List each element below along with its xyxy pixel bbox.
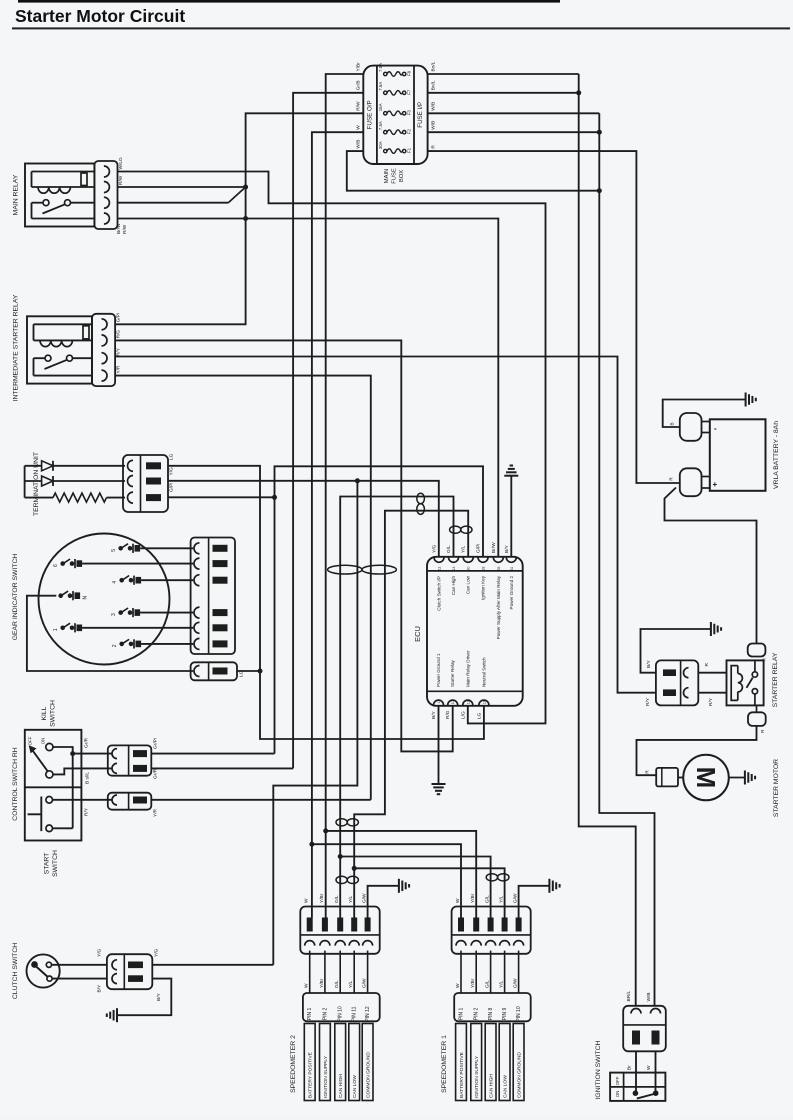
main fuse box outline (363, 66, 427, 164)
wire starter relay to starter motor (637, 726, 757, 775)
svg-text:W: W (455, 983, 461, 988)
svg-text:Y/G: Y/G (432, 544, 438, 553)
svg-text:B/Y: B/Y (504, 544, 510, 553)
ECU top pin 33 Ignition Key (478, 557, 488, 562)
svg-text:CAN LOW: CAN LOW (503, 1075, 509, 1098)
svg-text:R: R (431, 145, 437, 149)
svg-text:CAN HIGH: CAN HIGH (489, 1074, 495, 1098)
svg-text:MAIN RELAY: MAIN RELAY (13, 174, 20, 215)
svg-text:ECU: ECU (413, 626, 422, 642)
wire clutch B/Y to ground (117, 979, 171, 1016)
svg-text:OFF: OFF (28, 736, 33, 745)
svg-text:F8: F8 (406, 70, 411, 76)
svg-text:G/L: G/L (446, 545, 452, 553)
wire W branch to speedometer 1 (309, 842, 314, 847)
svg-text:N: N (83, 596, 89, 600)
svg-text:31: 31 (510, 567, 514, 571)
svg-text:PIN 11: PIN 11 (352, 1006, 358, 1021)
svg-text:TERMINATION UNIT: TERMINATION UNIT (33, 452, 40, 516)
wire LG from neutral connector (237, 670, 260, 672)
ground clutch (116, 1008, 118, 1022)
svg-text:10: 10 (451, 701, 455, 705)
svg-text:15A: 15A (378, 103, 383, 111)
gear switch contact 3 (118, 610, 123, 615)
svg-text:FUSE I/P: FUSE I/P (417, 102, 424, 128)
svg-text:FUSE O/P: FUSE O/P (367, 100, 374, 129)
svg-text:G/L: G/L (334, 980, 340, 988)
wire W fuse to speedometers (312, 132, 363, 918)
ECU bottom pin 10 Starter Relay (448, 700, 458, 705)
svg-text:Y/L: Y/L (461, 545, 467, 553)
wire CAN low Y/L ECU to speedometers (354, 511, 468, 918)
svg-text:1: 1 (53, 628, 59, 631)
fuse F1 30A (384, 149, 387, 152)
svg-text:W: W (646, 1065, 652, 1070)
svg-text:F2: F2 (406, 129, 411, 135)
gear switch neutral 1-pin connector (191, 662, 237, 680)
SPEEDOMETER 1 signal IGNITION SUPPLY (471, 1024, 482, 1101)
svg-text:STARTER RELAY: STARTER RELAY (772, 652, 779, 707)
starter relay connector (656, 660, 698, 705)
wire kill ON contact (53, 747, 73, 754)
wire W/B fuse output loop (347, 151, 600, 191)
SPEEDOMETER 2 signal CAN HIGH (335, 1024, 346, 1101)
wire intermediate relay pin4 Y/R to start switch (115, 376, 371, 800)
SPEEDOMETER 1 connector (452, 907, 531, 954)
wire LG termination to gear and ECU neutral switch (168, 466, 484, 739)
svg-text:F7: F7 (406, 89, 411, 95)
svg-text:Y/G: Y/G (154, 948, 160, 957)
wire Y/G termination to ECU clutch input (168, 481, 439, 557)
intermediate starter relay switch (45, 355, 51, 361)
svg-text:W/LG: W/LG (118, 157, 124, 170)
ground starter motor (744, 771, 746, 785)
svg-text:Y/G: Y/G (97, 948, 103, 957)
svg-text:F1: F1 (406, 147, 411, 153)
main relay switch (43, 200, 49, 206)
svg-text:ON: ON (615, 1091, 620, 1098)
svg-text:Main Relay Driver: Main Relay Driver (465, 650, 470, 687)
wire gear 1 to connector (82, 627, 193, 629)
svg-text:B sl/L: B sl/L (85, 772, 91, 784)
twisted pair symbol on CAN horizontals (417, 493, 425, 504)
svg-text:7.5A: 7.5A (378, 121, 383, 130)
wire battery negative to ground (663, 400, 746, 428)
wire intermediate relay pin2 R/G to ECU starter relay (115, 340, 453, 751)
svg-text:B: B (670, 422, 675, 425)
svg-text:COMMON GROUND: COMMON GROUND (366, 1052, 372, 1098)
diode D1 (25, 465, 42, 467)
ECU top pin 12 Clutch Switch I/P (434, 557, 444, 562)
svg-text:Y/L: Y/L (348, 980, 354, 988)
main relay coil resistor (81, 173, 87, 186)
wires starter relay connector to coil (698, 672, 726, 674)
svg-text:Starter Motor Circuit: Starter Motor Circuit (15, 6, 185, 26)
svg-text:Bn/L: Bn/L (431, 80, 437, 90)
svg-text:PIN 1: PIN 1 (459, 1008, 465, 1021)
svg-text:30A: 30A (378, 141, 383, 149)
SPEEDOMETER 1 pin block (454, 993, 531, 1021)
wire clutch Y/G to riser (152, 964, 273, 966)
svg-text:Neutral Switch: Neutral Switch (481, 657, 486, 687)
svg-text:GEAR INDICATOR SWITCH: GEAR INDICATOR SWITCH (12, 554, 19, 641)
wire gear 3 to connector (140, 612, 193, 614)
gear switch contact 5 (118, 546, 123, 551)
gear switch contact 1 (60, 626, 65, 631)
svg-text:-: - (714, 424, 717, 433)
intermediate starter relay coil (34, 323, 93, 325)
svg-text:PIN 2: PIN 2 (322, 1008, 328, 1021)
svg-text:PIN 10: PIN 10 (338, 1006, 344, 1022)
kill switch lever arrow (32, 749, 48, 771)
svg-text:R/G: R/G (445, 710, 451, 719)
wire Y/R horizontal to start switch connector (151, 799, 370, 801)
svg-text:2: 2 (112, 644, 118, 647)
starter relay bottom plug (748, 712, 766, 726)
ECU top pin 31 Power Ground 2 (506, 557, 516, 562)
wire start switch bottom contact (53, 827, 73, 829)
svg-text:VRLA BATTERY - 8Ah: VRLA BATTERY - 8Ah (773, 421, 780, 489)
wire kill Gr/R to Gr/B riser (151, 767, 293, 769)
wire CAN high G/L ECU to speedometers (340, 497, 453, 918)
svg-text:13: 13 (452, 567, 456, 571)
intermediate starter relay body (27, 316, 92, 383)
main relay body (25, 164, 94, 227)
ECU bottom pin 1 Power Ground 1 (434, 700, 444, 705)
svg-text:7.5A: 7.5A (378, 63, 383, 72)
svg-text:Y/R: Y/R (153, 808, 159, 817)
SPEEDOMETER 2 signal BATTERY POSITIVE (304, 1024, 315, 1101)
clutch switch lever (36, 967, 47, 977)
svg-text:6: 6 (53, 564, 59, 567)
svg-text:Br/W: Br/W (116, 223, 122, 234)
wire G/W speedometer 2 to ground (368, 886, 399, 918)
svg-text:ON: ON (41, 738, 46, 745)
svg-text:Br/W: Br/W (491, 542, 497, 553)
ignition switch box (610, 1073, 665, 1101)
SPEEDOMETER 1 signal COMMON GROUND (513, 1024, 524, 1101)
svg-text:3: 3 (111, 613, 117, 616)
svg-text:CONTROL SWITCH RH: CONTROL SWITCH RH (12, 747, 19, 820)
svg-text:W/B: W/B (646, 992, 652, 1001)
ground battery negative (745, 393, 747, 407)
ground speedometer 2 (398, 879, 400, 893)
wire kill lower contact (Gr/R) (53, 768, 112, 774)
svg-text:CLUTCH SWITCH: CLUTCH SWITCH (12, 943, 19, 999)
control switch RH box (25, 730, 82, 841)
svg-text:12: 12 (482, 701, 486, 705)
twisted pair symbol mid CAN bundle (328, 565, 362, 574)
twisted pair above speedometer 2 lower (336, 876, 347, 883)
SPEEDOMETER 1 signal BATTERY POSITIVE (456, 1024, 467, 1101)
svg-text:PIN 9: PIN 9 (502, 1008, 508, 1021)
svg-text:MAIN: MAIN (384, 169, 390, 184)
svg-text:B/Y: B/Y (646, 659, 652, 668)
ECU bottom pin 11 Main Relay Driver (463, 700, 473, 705)
svg-text:11: 11 (466, 701, 470, 705)
wire main relay pin2 R/W (118, 186, 246, 188)
gear switch contact N (58, 593, 63, 598)
wire Y/Br fuse to speedometers (326, 74, 364, 918)
wire main relay pin4 Br/W to ECU power supply (118, 219, 499, 557)
svg-text:Y/L: Y/L (348, 895, 354, 903)
wire Y/L branch to speedometer 1 (352, 866, 357, 871)
kill switch 2-pin connector (108, 745, 152, 775)
fuse F2 7.5A (384, 131, 387, 134)
starter motor M (678, 777, 683, 779)
ECU top pin 13 Can High (449, 557, 459, 562)
wire ECU power ground 2 (510, 476, 512, 557)
svg-text:Bn/L: Bn/L (431, 61, 437, 71)
svg-text:Power Ground 2: Power Ground 2 (509, 576, 514, 610)
battery positive terminal plug (680, 468, 702, 496)
svg-text:PIN 10: PIN 10 (516, 1006, 522, 1022)
svg-text:Power Ground 1: Power Ground 1 (436, 653, 441, 687)
svg-text:R/Y: R/Y (116, 347, 122, 356)
svg-text:Br: Br (627, 1065, 633, 1070)
svg-text:SPEEDOMETER 1: SPEEDOMETER 1 (441, 1035, 448, 1093)
start switch 1-pin connector (108, 793, 152, 810)
svg-text:Starter Relay: Starter Relay (450, 659, 455, 687)
gear switch 6-pin connector (191, 538, 235, 655)
wire R fuse to battery positive (428, 151, 680, 483)
svg-text:Gr/Pi: Gr/Pi (153, 738, 159, 749)
wire kill-start interlock vertical (72, 754, 74, 829)
wire R/W fuse to intermediate relay pin1 (115, 113, 363, 324)
wire starter motor to ground (729, 777, 745, 779)
svg-text:SPEEDOMETER 2: SPEEDOMETER 2 (290, 1035, 297, 1093)
ground starter relay (710, 622, 712, 636)
battery negative terminal plug (680, 413, 702, 441)
svg-text:W: W (304, 898, 310, 903)
ground ECU power ground 2 (504, 475, 518, 477)
svg-text:BATTERY POSITIVE: BATTERY POSITIVE (459, 1051, 465, 1098)
intermediate starter relay coil resistor (83, 326, 89, 339)
svg-text:INTERMEDIATE STARTER RELAY: INTERMEDIATE STARTER RELAY (13, 294, 20, 401)
svg-text:Y/Br: Y/Br (319, 978, 325, 988)
diode D2 (25, 480, 42, 482)
svg-text:SWITCH: SWITCH (50, 700, 57, 727)
svg-text:B/Y: B/Y (431, 710, 437, 719)
svg-text:12: 12 (438, 567, 442, 571)
svg-text:M: M (691, 767, 721, 789)
svg-text:IGNITION SUPPLY: IGNITION SUPPLY (474, 1055, 480, 1098)
svg-text:PIN 2: PIN 2 (474, 1008, 480, 1021)
gear switch contact 2 (119, 642, 124, 647)
svg-text:CAN HIGH: CAN HIGH (338, 1074, 344, 1098)
svg-text:35: 35 (497, 567, 501, 571)
svg-text:Can High: Can High (451, 576, 456, 596)
ECU bottom pin 12 Neutral Switch (479, 700, 489, 705)
starter relay coil (731, 666, 738, 701)
svg-text:G/Pi: G/Pi (169, 483, 175, 492)
ignition switch contacts (633, 1090, 639, 1096)
svg-text:Can Low: Can Low (466, 575, 471, 594)
svg-text:Y/Br: Y/Br (319, 893, 325, 903)
twisted pair symbol near ECU verticals (450, 526, 461, 533)
wire Y/Br branch to speedometer 1 (323, 828, 328, 833)
svg-text:+: + (713, 480, 718, 489)
svg-text:5: 5 (111, 549, 117, 552)
ignition switch connector (623, 1006, 666, 1052)
svg-text:LG: LG (239, 670, 245, 677)
wire gear 5 to connector (140, 547, 193, 549)
svg-text:Gr/R: Gr/R (153, 768, 159, 779)
svg-text:LG: LG (476, 712, 482, 719)
wire W/B fuse pair (428, 112, 600, 114)
wires ignition connector to switch (635, 1051, 637, 1093)
fuse F3 15A (384, 112, 387, 115)
wire clutch Y/G (52, 964, 107, 966)
wire gear 4 to connector (141, 579, 193, 581)
wire clutch B/Y (52, 978, 107, 980)
wire kill Gr/Pi to riser (151, 753, 274, 755)
wire starter relay B/Y to ground (641, 629, 711, 673)
start switch button (40, 797, 42, 832)
svg-text:Gr/R: Gr/R (84, 737, 90, 748)
wire G/W speedometer 1 to ground (519, 886, 550, 918)
svg-text:W/B: W/B (356, 140, 362, 149)
ECU top pin 35 Power Supply After Main Relay (493, 557, 503, 562)
wire main relay pin3 with diagonal jog (118, 202, 229, 204)
SPEEDOMETER 2 connector (300, 907, 379, 954)
page header bar remnant (18, 0, 560, 3)
svg-text:G/Pi: G/Pi (476, 544, 482, 553)
starter relay top plug (748, 644, 766, 657)
wire G/L branch to speedometer 1 (338, 854, 343, 859)
main relay connector (94, 161, 117, 229)
svg-text:PIN 1: PIN 1 (307, 1008, 313, 1021)
ECU top pin 30 Can Low (463, 557, 473, 562)
wire gear 6 to connector (82, 563, 193, 565)
svg-text:W/B: W/B (431, 121, 437, 130)
starter relay box (727, 660, 764, 705)
termination unit left bus wire (24, 466, 26, 498)
svg-text:BATTERY POSITIVE: BATTERY POSITIVE (308, 1051, 314, 1098)
ground ECU power ground 1 (432, 783, 446, 785)
starter relay switch (752, 672, 757, 677)
svg-text:B/Y: B/Y (97, 984, 103, 993)
title underline (12, 27, 790, 29)
svg-text:F3: F3 (406, 110, 411, 116)
svg-text:START: START (44, 853, 51, 875)
svg-text:CAN LOW: CAN LOW (352, 1075, 358, 1098)
SPEEDOMETER 1 signal CAN HIGH (485, 1024, 496, 1101)
twisted pair above speedometer 1 (486, 874, 497, 881)
svg-text:R/W: R/W (356, 101, 362, 111)
svg-text:Y/R: Y/R (116, 365, 122, 374)
svg-text:R/W: R/W (118, 175, 124, 185)
svg-text:R/Y: R/Y (84, 807, 90, 816)
wire start switch top contact Y/R (53, 799, 113, 801)
wire battery positive to starter relay (665, 488, 757, 644)
wire intermediate relay pin3 R/Y to starter relay (115, 357, 656, 693)
ECU box (427, 557, 523, 706)
svg-text:PIN 12: PIN 12 (365, 1006, 371, 1022)
twisted pair above speedometer 2 upper (336, 819, 347, 826)
svg-text:FUSE: FUSE (392, 168, 398, 184)
wire W/B riser to ignition switch (599, 113, 654, 1006)
svg-text:Power Supply After Main Relay: Power Supply After Main Relay (496, 575, 501, 639)
svg-text:33: 33 (482, 567, 486, 571)
svg-text:G/L: G/L (485, 980, 491, 988)
svg-text:W: W (304, 983, 310, 988)
svg-text:Ignition Key: Ignition Key (481, 575, 486, 600)
wire Gr/B fuse to kill switch (293, 93, 363, 769)
svg-text:Y/G: Y/G (169, 467, 175, 476)
starter motor connector (656, 768, 678, 787)
svg-text:L/G: L/G (460, 711, 466, 719)
svg-text:4: 4 (112, 581, 118, 584)
termination unit connector (123, 455, 168, 512)
svg-text:BR/L: BR/L (626, 991, 632, 1002)
gear switch contact 6 (60, 561, 65, 566)
SPEEDOMETER 2 signal COMMON GROUND (362, 1024, 373, 1101)
svg-text:G/L: G/L (334, 895, 340, 903)
svg-text:1: 1 (437, 701, 441, 703)
svg-text:R/G: R/G (116, 330, 122, 339)
svg-text:Y/Br: Y/Br (470, 978, 476, 988)
svg-text:Y/Br: Y/Br (356, 62, 362, 72)
svg-text:BOX: BOX (399, 170, 405, 182)
VRLA battery (710, 419, 766, 491)
intermediate starter relay connector (92, 314, 115, 386)
svg-text:R/Y: R/Y (708, 697, 714, 706)
svg-text:G/Pi: G/Pi (116, 313, 122, 322)
fuse F7 7.5A (384, 91, 387, 94)
svg-text:STARTER MOTOR: STARTER MOTOR (773, 759, 780, 817)
wire gear 2 to connector (141, 643, 193, 645)
svg-text:R: R (704, 663, 710, 667)
svg-text:W: W (356, 125, 362, 130)
svg-text:R/Y: R/Y (645, 697, 651, 706)
svg-text:G/W: G/W (362, 978, 368, 988)
wire G/Pi termination to kill switch and ECU ignition key (168, 496, 275, 498)
svg-text:W/B: W/B (431, 102, 437, 111)
svg-text:IGNITION SWITCH: IGNITION SWITCH (595, 1040, 602, 1099)
svg-text:Clutch Switch I/P: Clutch Switch I/P (437, 576, 442, 611)
svg-text:B/Y: B/Y (156, 992, 162, 1001)
svg-text:Y/L: Y/L (499, 980, 505, 988)
SPEEDOMETER 2 signal IGNITION SUPPLY (320, 1024, 331, 1101)
wire clutch Y/G riser (273, 481, 357, 965)
fuse F8 7.5A (384, 72, 387, 75)
svg-text:R/W: R/W (122, 224, 128, 234)
gear switch contact 4 (119, 578, 124, 583)
SPEEDOMETER 2 signal CAN LOW (349, 1024, 360, 1101)
SPEEDOMETER 1 signal CAN LOW (499, 1024, 510, 1101)
svg-text:PIN 8: PIN 8 (488, 1008, 494, 1021)
wire gear N to LG connector (27, 596, 193, 671)
termination resistor (25, 497, 53, 499)
svg-text:7.5A: 7.5A (378, 82, 383, 91)
svg-text:30: 30 (467, 567, 471, 571)
svg-text:KILL: KILL (41, 706, 48, 720)
wire Bn/L fuse pair (428, 73, 579, 75)
svg-text:Gr/B: Gr/B (356, 80, 362, 90)
svg-text:G/W: G/W (513, 978, 519, 988)
svg-text:OFF: OFF (615, 1076, 620, 1085)
wire Gr/Pi kill to connector (73, 753, 112, 755)
svg-text:SWITCH: SWITCH (52, 850, 59, 877)
svg-text:LG: LG (169, 453, 175, 460)
svg-text:IGNITION SUPPLY: IGNITION SUPPLY (323, 1055, 329, 1098)
wire main relay pin1 W/LG to ECU main relay driver (118, 172, 546, 724)
svg-text:COMMON GROUND: COMMON GROUND (517, 1052, 523, 1098)
clutch switch connector (107, 954, 152, 989)
ground speedometer 1 (548, 879, 550, 893)
wire ECU power ground 1 (438, 705, 440, 783)
